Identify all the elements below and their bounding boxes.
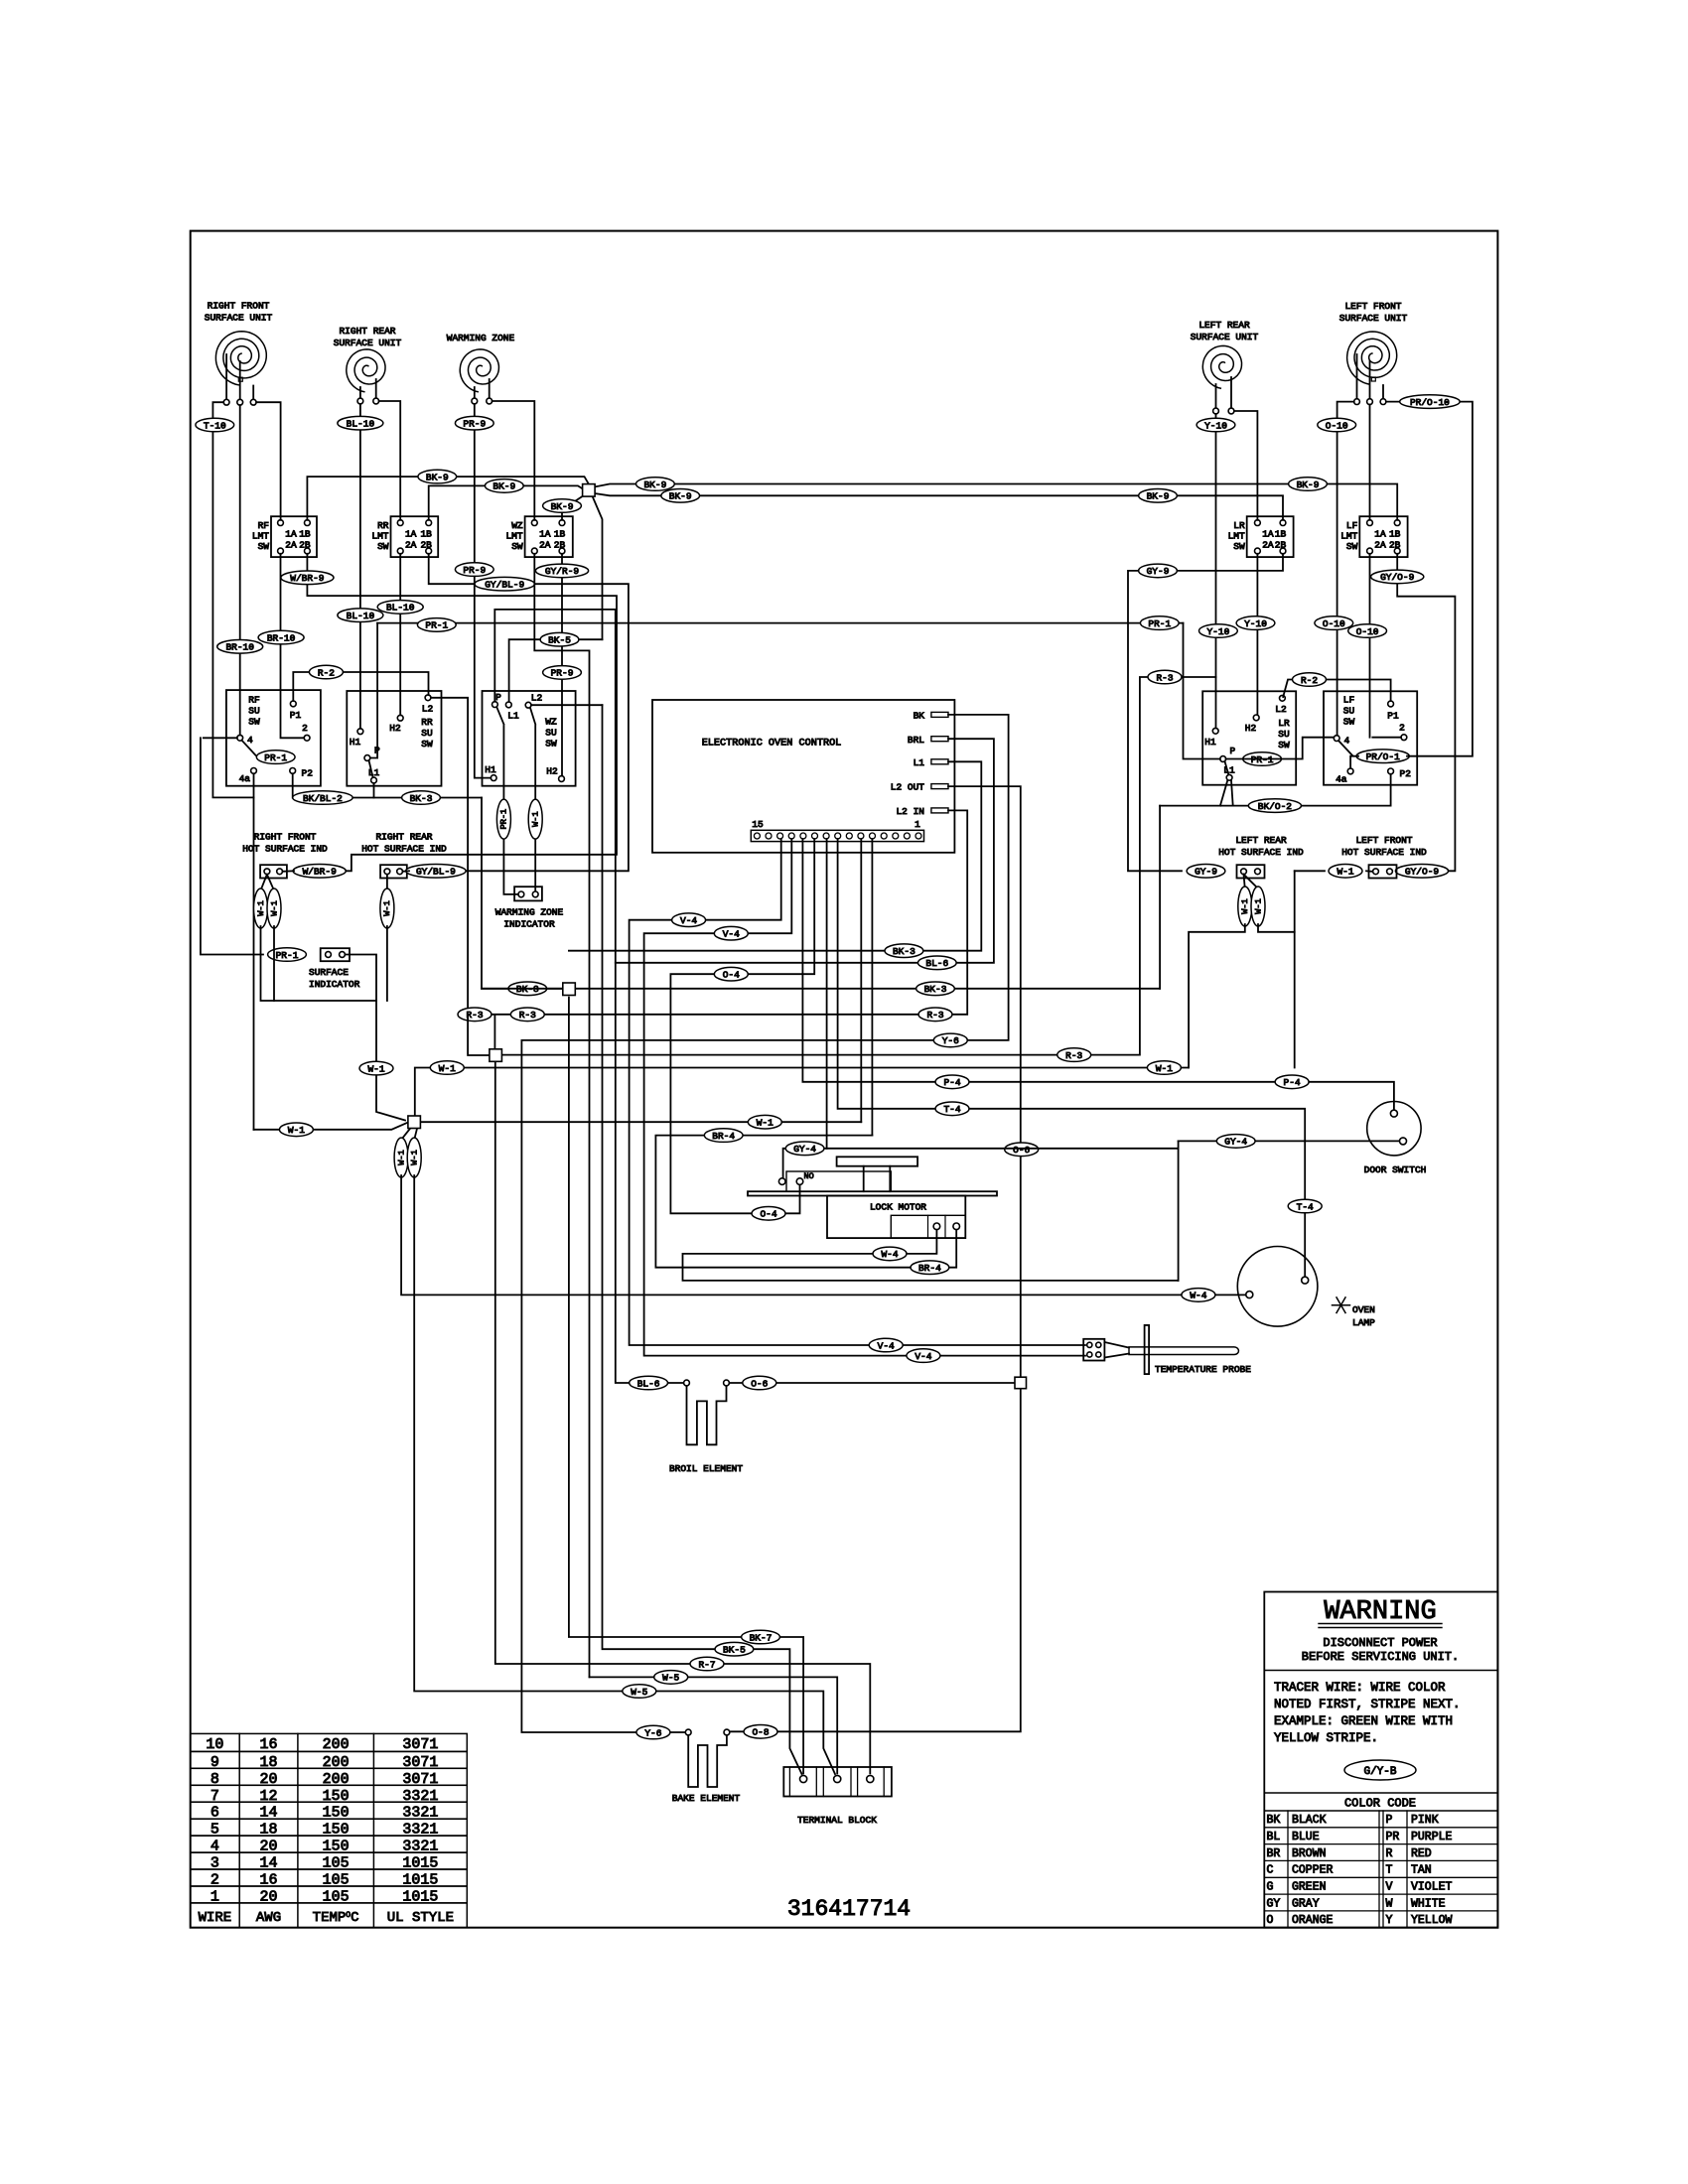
svg-text:PR-9: PR-9 (551, 668, 574, 679)
EOC relay terminal L2 IN (931, 808, 948, 813)
svg-text:14: 14 (259, 1805, 277, 1822)
coil LR lead wires (1215, 384, 1217, 408)
RR hot surface indicator box (380, 865, 407, 878)
wire BK-9 junction to WZ LMT 1B (562, 495, 584, 520)
RF SU SW switch arm (242, 741, 256, 755)
svg-text:BK/BL-2: BK/BL-2 (303, 793, 343, 804)
LF SU SW terminal P2 (1388, 768, 1394, 774)
terminal block lug 3 (867, 1775, 874, 1782)
svg-text:BK: BK (1267, 1814, 1281, 1827)
surface unit coil RF (right front) (215, 332, 266, 385)
surface switch WZ SU SW box (483, 691, 576, 786)
wire RR L2 east and down to R-3 bus (431, 698, 468, 1015)
wire BK-9 bus from RR LMT 1B to junction (429, 485, 583, 519)
svg-text:PINK: PINK (1411, 1814, 1439, 1827)
wire LF terminal 2 down to LF LMT 1A (1369, 405, 1371, 520)
svg-text:16: 16 (259, 1736, 277, 1753)
svg-text:PR-9: PR-9 (463, 565, 486, 576)
svg-text:WARNING: WARNING (1324, 1597, 1436, 1627)
svg-text:G/Y-B: G/Y-B (1363, 1766, 1396, 1778)
limit switch RR (391, 516, 439, 557)
svg-text:W-1: W-1 (439, 1063, 456, 1074)
svg-text:2A: 2A (1374, 540, 1386, 551)
wire L2 OUT relay to O-6 drop (730, 786, 1021, 1731)
svg-text:BL-10: BL-10 (347, 419, 375, 430)
svg-text:RIGHT REAR: RIGHT REAR (375, 832, 432, 843)
svg-text:1B: 1B (1275, 529, 1287, 540)
wire BK-9 junction to LR LMT 1B (595, 493, 1283, 520)
terminal LF-3 (1380, 399, 1386, 405)
svg-text:W-1: W-1 (1253, 898, 1263, 913)
wire label PR-1 vertical (496, 799, 510, 839)
wire GY-4 riser to lamp loop (1178, 1141, 1180, 1281)
svg-text:LF: LF (1346, 520, 1358, 531)
svg-text:SURFACE UNIT: SURFACE UNIT (1339, 313, 1408, 324)
svg-text:R-3: R-3 (519, 1010, 536, 1021)
oven lamp circle (1237, 1247, 1318, 1327)
svg-text:L1: L1 (507, 711, 519, 722)
svg-text:Y-10: Y-10 (1204, 420, 1227, 431)
wire label BK-9 c (543, 499, 582, 513)
warning box outline (1264, 1592, 1497, 1928)
svg-text:200: 200 (323, 1771, 350, 1788)
svg-text:GY/O-9: GY/O-9 (1380, 572, 1415, 583)
svg-text:O: O (1267, 1914, 1274, 1927)
terminal RF-1 (223, 399, 229, 405)
wire label Y-6 b (636, 1725, 670, 1739)
svg-text:105: 105 (323, 1855, 350, 1872)
wire label GY/BL-9 b (406, 865, 466, 879)
svg-text:R-3: R-3 (466, 1010, 483, 1021)
svg-text:RF: RF (248, 695, 260, 706)
svg-text:W-1: W-1 (288, 1125, 305, 1136)
svg-text:200: 200 (323, 1736, 350, 1753)
junction square 4 on O-6 drop (1015, 1377, 1027, 1389)
wire RR LMT 2A down to H2 (399, 554, 401, 716)
surface switch RF SU SW box (226, 690, 321, 786)
svg-text:RIGHT FRONT: RIGHT FRONT (254, 832, 317, 843)
door switch terminal side (1400, 1138, 1407, 1145)
svg-text:C: C (1267, 1864, 1274, 1877)
svg-text:BR-4: BR-4 (918, 1263, 941, 1274)
svg-text:HOT SURFACE IND: HOT SURFACE IND (1218, 847, 1304, 858)
wire label W-4 a (873, 1247, 907, 1261)
wire BK-5 to WZ L1 (509, 639, 603, 702)
wire label R-3 d (1057, 1048, 1091, 1062)
temperature probe taper (1104, 1342, 1129, 1348)
wire label GY/BL-9 a (475, 577, 534, 591)
wire PR-1 long bus (377, 622, 1183, 624)
svg-text:O-8: O-8 (752, 1727, 769, 1738)
wire 4a W-1 line into square3 (254, 1123, 408, 1130)
surface switch LF SU SW box (1324, 691, 1417, 784)
svg-text:V-4: V-4 (914, 1351, 931, 1362)
LR SU SW terminal P (1220, 756, 1226, 762)
wire L1 relay to BK-3 bus (569, 761, 981, 950)
svg-text:RR: RR (421, 717, 433, 728)
wire R-2 from LF P1 to LR L2 (1283, 680, 1390, 702)
svg-text:HOT SURFACE IND: HOT SURFACE IND (1341, 847, 1427, 858)
surface unit coil WZ (warming zone) (460, 349, 498, 392)
svg-text:AWG: AWG (256, 1910, 281, 1926)
svg-text:2B: 2B (554, 540, 566, 551)
svg-text:P: P (1230, 746, 1236, 756)
bake element zigzag (688, 1735, 727, 1787)
svg-text:O-6: O-6 (751, 1378, 768, 1389)
svg-text:2B: 2B (420, 540, 432, 551)
svg-text:P1: P1 (1387, 711, 1399, 722)
lock motor cam switch box (786, 1171, 891, 1191)
wire label W-1 f (1147, 1061, 1181, 1075)
wire BK relay to Y-6 bus (521, 715, 1008, 1040)
svg-text:W-1: W-1 (256, 900, 266, 915)
svg-text:GY/BL-9: GY/BL-9 (416, 867, 456, 878)
RF SU SW terminal P2 (290, 768, 296, 774)
svg-text:UL STYLE: UL STYLE (387, 1910, 454, 1926)
svg-text:2A: 2A (285, 540, 297, 551)
wire label PR-9 c (543, 666, 582, 680)
svg-text:1: 1 (211, 1889, 219, 1906)
svg-text:18: 18 (259, 1754, 277, 1771)
svg-text:BROIL ELEMENT: BROIL ELEMENT (669, 1463, 743, 1474)
wire label W-5 b (654, 1671, 688, 1685)
svg-text:HOT SURFACE IND: HOT SURFACE IND (242, 844, 328, 855)
wire label BL-6 b (630, 1376, 668, 1390)
svg-text:O-4: O-4 (760, 1209, 776, 1220)
svg-text:W-1: W-1 (396, 1150, 406, 1164)
svg-text:BRL: BRL (908, 735, 924, 746)
door switch terminal top (1390, 1110, 1397, 1117)
LF SU SW terminal 4a (1347, 768, 1353, 774)
wire label V-4 d (907, 1349, 940, 1363)
svg-text:WARMING ZONE: WARMING ZONE (495, 907, 564, 918)
wire RR L1 down to BK-3 junction run (373, 783, 375, 798)
svg-text:W-4: W-4 (881, 1249, 898, 1260)
svg-text:SW: SW (377, 541, 389, 552)
wire pin5 BR-4 drop (871, 839, 873, 1136)
svg-text:GY/R-9: GY/R-9 (545, 566, 580, 577)
svg-text:BK-7: BK-7 (750, 1632, 773, 1643)
wire pin13 V-4 to temperature probe (630, 839, 1085, 1345)
bake element terminal left (685, 1729, 691, 1735)
svg-text:SW: SW (421, 739, 433, 750)
svg-text:PR/O-10: PR/O-10 (1410, 397, 1450, 408)
wire label GY/O-9 b (1395, 865, 1448, 879)
svg-text:DISCONNECT POWER: DISCONNECT POWER (1323, 1636, 1437, 1650)
oven lamp terminal left (1246, 1292, 1253, 1298)
wire LF terminal 2 line (1372, 737, 1401, 739)
svg-text:L2: L2 (422, 704, 434, 715)
svg-text:L2 IN: L2 IN (896, 806, 924, 817)
lock motor wide bar (748, 1191, 997, 1195)
LF SU SW switch arm (1338, 741, 1352, 755)
svg-text:YELLOW: YELLOW (1411, 1914, 1453, 1927)
terminal LF-2 (1367, 399, 1373, 405)
svg-text:GY/O-9: GY/O-9 (1405, 867, 1440, 878)
wire R-3 drop to square2 (493, 1015, 495, 1048)
svg-text:T-4: T-4 (1297, 1201, 1314, 1212)
svg-text:GY: GY (1267, 1897, 1281, 1910)
wire label W-1 vertical right leg (407, 1138, 421, 1177)
RF indicator V split to W-1 lamps (261, 875, 267, 890)
wire T-10 from RF terminal 1 down to 4a line (212, 402, 253, 797)
svg-text:1A: 1A (539, 529, 551, 540)
svg-text:2B: 2B (299, 540, 311, 551)
svg-text:V-4: V-4 (878, 1340, 895, 1351)
wire BK-3 bus east from square1 to BK/O-2 riser (576, 988, 1160, 990)
svg-text:TERMINAL BLOCK: TERMINAL BLOCK (797, 1815, 877, 1826)
svg-text:P-4: P-4 (1284, 1077, 1301, 1088)
wire BK/O-2 line (1160, 774, 1391, 806)
wire WZ L2 arm drop through W-1 to warming zone indicator (534, 726, 536, 891)
lock motor body (827, 1196, 965, 1239)
wire label O-10 a (1318, 418, 1356, 432)
svg-text:3071: 3071 (402, 1771, 438, 1788)
svg-text:BAKE ELEMENT: BAKE ELEMENT (672, 1793, 741, 1804)
RR SU SW terminal H1 (357, 729, 363, 735)
svg-text:150: 150 (323, 1822, 350, 1839)
wire L2 IN relay to R-3 bus (468, 810, 967, 1014)
svg-text:G: G (1267, 1881, 1274, 1894)
svg-text:BK-9: BK-9 (492, 481, 515, 492)
svg-text:YELLOW STRIPE.: YELLOW STRIPE. (1274, 1731, 1378, 1745)
svg-text:BK-5: BK-5 (548, 635, 571, 646)
svg-text:VIOLET: VIOLET (1411, 1881, 1453, 1894)
svg-text:W-1: W-1 (757, 1118, 774, 1129)
wire label BK/BL-2 (293, 791, 352, 805)
wire BL-6 riser to broil element (616, 610, 684, 1383)
wire WZ terminal 1 down to WZ H1 (475, 404, 492, 778)
RR indicator drop to W-1 lamp (386, 875, 388, 890)
svg-text:SU: SU (248, 706, 260, 717)
wire LF LMT 2B GY/O-9 loop to LF indicator (1397, 554, 1455, 872)
bake element terminal right (724, 1729, 730, 1735)
wire label GY-4 a (785, 1142, 824, 1156)
svg-text:V-4: V-4 (723, 929, 740, 940)
svg-text:GY/BL-9: GY/BL-9 (485, 580, 524, 591)
svg-text:1B: 1B (420, 529, 432, 540)
wire LR L1 V-split to BK/O-2 line (1220, 780, 1227, 806)
terminal block lug 2 (834, 1775, 841, 1782)
svg-text:4: 4 (247, 735, 253, 746)
svg-text:4: 4 (1344, 736, 1350, 747)
svg-text:BK-9: BK-9 (551, 501, 574, 512)
RF SU SW terminal 4 (237, 735, 243, 741)
LR SU SW switch arm (1225, 761, 1229, 774)
limit switch WZ (525, 516, 573, 557)
lock motor switch terminal COM (778, 1178, 785, 1185)
svg-text:RR: RR (377, 520, 389, 531)
svg-text:PR-1: PR-1 (499, 809, 509, 830)
svg-text:P: P (495, 692, 501, 703)
terminal WZ-1 (472, 398, 478, 404)
svg-text:WHITE: WHITE (1411, 1897, 1446, 1910)
RF hot surface indicator box (260, 865, 287, 878)
broil element zigzag (687, 1386, 727, 1444)
svg-text:TEMPOC: TEMPOC (313, 1910, 359, 1926)
junction square 2 (red nets) (490, 1049, 502, 1062)
wire label Y-6 a (933, 1033, 967, 1047)
wire label PR/O-1 in LF SU SW (1356, 750, 1409, 763)
limit switch LR (1247, 516, 1294, 557)
svg-text:3: 3 (211, 1855, 219, 1872)
LR SU SW terminal L2 (1280, 695, 1286, 701)
wire label R-3 b (918, 1008, 952, 1022)
svg-text:3071: 3071 (402, 1736, 438, 1753)
svg-text:PURPLE: PURPLE (1411, 1831, 1453, 1843)
surface unit coil LF (left front) (1347, 332, 1397, 384)
svg-text:W-5: W-5 (662, 1673, 679, 1684)
surface switch RR SU SW box (347, 691, 441, 786)
EOC relay terminal BRL (931, 737, 948, 742)
temperature probe connector box (1083, 1339, 1104, 1361)
svg-text:1A: 1A (1262, 529, 1274, 540)
svg-text:3321: 3321 (402, 1788, 438, 1805)
svg-text:DOOR SWITCH: DOOR SWITCH (1364, 1164, 1427, 1175)
svg-text:200: 200 (323, 1754, 350, 1771)
wire RR indicator lamp down (386, 926, 388, 1001)
wire label R-3 e (1148, 670, 1182, 684)
terminal RR-2 (373, 398, 379, 404)
svg-text:2: 2 (1399, 723, 1405, 734)
svg-text:SURFACE: SURFACE (309, 967, 349, 978)
wire label BK-9 e (661, 489, 700, 503)
temperature probe shaft (1129, 1347, 1238, 1355)
wire label R-3 a (510, 1008, 544, 1022)
LR SU SW terminal L1 (1226, 774, 1232, 780)
wire R-3 jog into square2 (468, 1015, 489, 1055)
WZ SU SW switch arm P (496, 707, 503, 724)
wire W-1 low bus from square3 (421, 1121, 861, 1123)
wire LF terminal 1 to LF SU SW 4 (1337, 402, 1354, 736)
svg-text:GY-9: GY-9 (1195, 867, 1217, 878)
wire label BL-10 c (377, 601, 423, 614)
wire label O-10 c (1348, 624, 1387, 638)
svg-text:O-10: O-10 (1356, 626, 1379, 637)
svg-text:Y-6: Y-6 (942, 1035, 959, 1046)
svg-text:ELECTRONIC OVEN CONTROL: ELECTRONIC OVEN CONTROL (702, 739, 842, 750)
svg-text:1B: 1B (554, 529, 566, 540)
svg-text:WZ: WZ (545, 717, 557, 728)
warming zone indicator box (514, 887, 542, 900)
svg-text:SW: SW (1278, 740, 1290, 751)
RR SU SW terminal H2 (397, 715, 403, 721)
wire broil O-6 to junction (729, 1382, 1014, 1384)
wire GY-4 door switch link (1179, 1140, 1400, 1142)
wire BK-5 drop to terminal block (603, 705, 802, 1774)
wire label W-1 vertical LR-1 (1238, 887, 1252, 926)
svg-text:6: 6 (211, 1805, 219, 1822)
svg-text:20: 20 (259, 1839, 277, 1855)
wire label V-4 b (714, 926, 748, 940)
svg-text:LMT: LMT (1228, 531, 1245, 542)
wire gauge table (191, 1733, 468, 1751)
wire pin10 O-4 to lock motor switch (670, 839, 814, 1213)
svg-text:R: R (1386, 1847, 1393, 1860)
color code table (1264, 1810, 1497, 1812)
svg-text:W-1: W-1 (382, 900, 392, 915)
svg-text:SW: SW (258, 541, 270, 552)
wire LR LMT 2A down to LR H2 (1256, 554, 1258, 715)
svg-text:BK-9: BK-9 (669, 491, 692, 502)
svg-text:GY-9: GY-9 (1147, 566, 1170, 577)
coil LF inner dot (1371, 377, 1375, 381)
svg-text:BK-3: BK-3 (893, 946, 915, 957)
wire BK-7 from square1 to terminal block (569, 998, 803, 1774)
coil RR lead wires (359, 387, 361, 398)
svg-text:1A: 1A (285, 529, 297, 540)
svg-text:OVEN: OVEN (1352, 1304, 1375, 1315)
wire RF indicator to oval (283, 870, 295, 873)
svg-text:BL-6: BL-6 (637, 1378, 660, 1389)
LR indicator V split to W-1 lamps (1244, 875, 1245, 888)
wire label BL-6 a (917, 956, 956, 970)
terminal block lug 1 (800, 1775, 807, 1782)
wire label W/BR-9 a (281, 571, 334, 585)
terminal RR-1 (357, 398, 363, 404)
svg-text:SW: SW (1346, 541, 1358, 552)
wire RF terminal 2 to switch terminal 4 (239, 405, 241, 735)
svg-text:BR-10: BR-10 (225, 642, 254, 653)
svg-text:LMT: LMT (505, 531, 522, 542)
svg-text:12: 12 (259, 1788, 277, 1805)
svg-text:EXAMPLE: GREEN WIRE WITH: EXAMPLE: GREEN WIRE WITH (1274, 1714, 1453, 1728)
svg-text:2A: 2A (539, 540, 551, 551)
wire LR terminal 2 to LR LMT 1A (1234, 411, 1258, 520)
wire label GY/R-9 (535, 564, 588, 578)
wire label W/BR-9 b (293, 865, 346, 879)
wire R-3 east bus from square2 to LR riser (503, 677, 1216, 1055)
EOC relay terminal L2 OUT (931, 784, 948, 789)
svg-text:P1: P1 (290, 710, 302, 721)
electronic oven control box (652, 700, 954, 853)
wire BK-3 bus west from square1 (482, 988, 563, 990)
svg-text:W: W (1386, 1897, 1393, 1910)
svg-text:V-4: V-4 (680, 915, 697, 926)
wire BK-9 bus from RF LMT 1B to junction (307, 477, 589, 520)
wire WZ terminal 2 to WZ LMT 1A (492, 401, 535, 520)
wire label R-7 (690, 1657, 724, 1671)
svg-text:10: 10 (206, 1736, 223, 1753)
WZ SU SW terminal P (492, 702, 498, 708)
svg-text:BR-4: BR-4 (712, 1131, 735, 1142)
wire label BK-5 a (540, 632, 579, 646)
svg-text:150: 150 (323, 1839, 350, 1855)
svg-text:PR-1: PR-1 (276, 950, 299, 961)
svg-text:15: 15 (752, 819, 764, 830)
RR SU SW terminal L1 (371, 777, 377, 783)
svg-text:GRAY: GRAY (1292, 1897, 1320, 1910)
svg-text:PR-1: PR-1 (1148, 618, 1171, 629)
warning box divider 2 (1264, 1792, 1497, 1794)
warning underline (1319, 1623, 1442, 1625)
wire WZ LMT 2B down to WZ H2 (561, 554, 563, 776)
wire LR indicator lamp legs (1189, 924, 1245, 1068)
wire label Y-10 b (1199, 624, 1238, 638)
wire label O-4 b (752, 1207, 785, 1221)
svg-text:BK-9: BK-9 (643, 479, 666, 490)
terminal LR-2 (1228, 408, 1234, 414)
wire label Y-10 a (1196, 418, 1235, 432)
svg-text:SURFACE UNIT: SURFACE UNIT (1191, 332, 1259, 342)
lock motor switch terminal NO (796, 1178, 803, 1185)
svg-text:PR: PR (1386, 1831, 1400, 1843)
wire Y-6 drop to bake element (521, 1040, 685, 1732)
wire label PR-1 bus a (417, 618, 456, 632)
wire W-5 from WZ 2A to terminal block (590, 1677, 838, 1773)
svg-text:BLUE: BLUE (1292, 1831, 1320, 1843)
svg-text:BK-5: BK-5 (723, 1645, 746, 1656)
